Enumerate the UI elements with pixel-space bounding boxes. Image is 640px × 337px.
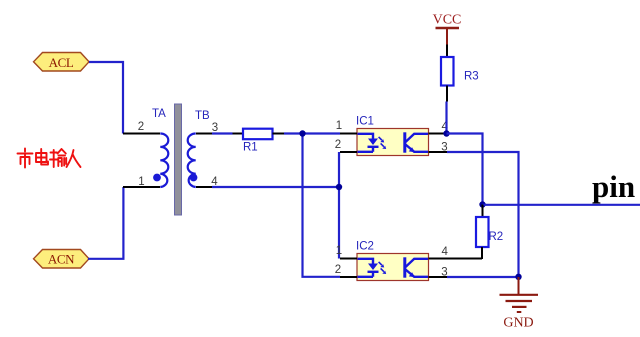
svg-text:IC1: IC1	[356, 116, 374, 128]
IC1 internal phototransistor	[405, 132, 428, 152]
junction node D	[479, 201, 485, 207]
resistor R1	[233, 129, 285, 154]
svg-text:IC2: IC2	[356, 241, 374, 253]
transformer winding TA	[123, 108, 168, 188]
svg-text:VCC: VCC	[433, 13, 462, 28]
svg-text:3: 3	[441, 267, 447, 279]
wire IC1 pin3 to node E	[447, 152, 519, 277]
IC2 internal LED	[358, 259, 379, 277]
wire IC2 pin3 to node E	[447, 276, 519, 278]
junction node C	[443, 130, 449, 136]
transformer T core	[175, 104, 182, 215]
transformer winding TB	[188, 110, 219, 188]
ground GND	[500, 277, 539, 331]
svg-text:3: 3	[441, 142, 447, 154]
IC1 internal LED	[358, 134, 379, 152]
wire TB pin3 to R1	[212, 132, 233, 134]
resistor R3	[441, 57, 479, 102]
IC1 pin 2	[335, 139, 357, 152]
opto-coupler IC1	[335, 116, 449, 156]
IC2 pin 4	[429, 246, 449, 259]
wire node B to IC1 pin2 and IC2 pin1	[338, 152, 340, 259]
resistor R2	[476, 205, 503, 260]
svg-text:ACL: ACL	[49, 55, 74, 70]
text 市电输入 (mains input)	[18, 149, 81, 168]
svg-text:TA: TA	[152, 108, 166, 120]
junction node B	[336, 184, 342, 190]
svg-text:ACN: ACN	[48, 252, 75, 267]
wire ACN to TA pin1	[88, 187, 123, 259]
svg-text:4: 4	[441, 246, 448, 258]
svg-text:R2: R2	[489, 231, 504, 243]
wire R1 to IC1 pin1	[284, 132, 340, 134]
IC2 LED light arrows	[379, 262, 387, 274]
svg-text:R1: R1	[243, 142, 258, 154]
label pin	[592, 169, 635, 204]
junction node A	[299, 130, 305, 136]
svg-text:2: 2	[335, 264, 341, 276]
opto-coupler IC2	[335, 241, 449, 281]
wire R2 to IC2 pin4	[429, 258, 483, 260]
IC1 LED light arrows	[379, 137, 387, 149]
IC1 pin 1	[336, 120, 357, 134]
wire node A down to IC2 pin2	[303, 134, 341, 277]
IC2 pin 3	[429, 267, 448, 279]
IC1 pin 4	[429, 121, 449, 134]
svg-text:TB: TB	[195, 110, 210, 122]
wire ACL to TA pin2	[89, 62, 123, 134]
wire node C to node D	[447, 134, 483, 205]
wire node D to pin output	[483, 204, 640, 206]
power port ACL	[34, 53, 90, 72]
IC1 pin 3	[429, 142, 448, 154]
svg-text:R3: R3	[464, 71, 479, 83]
svg-text:1: 1	[336, 120, 342, 132]
svg-text:pin: pin	[592, 169, 635, 204]
svg-text:3: 3	[212, 122, 218, 134]
wire R3 to node C	[445, 102, 447, 134]
IC2 pin 1	[336, 245, 357, 259]
power port ACN	[34, 250, 90, 269]
power port VCC	[433, 13, 462, 45]
IC2 pin 2	[335, 264, 357, 277]
IC2 internal phototransistor	[405, 257, 428, 277]
svg-text:2: 2	[138, 121, 144, 133]
svg-text:2: 2	[335, 139, 341, 151]
svg-text:GND: GND	[503, 316, 533, 331]
svg-text:1: 1	[336, 245, 342, 257]
svg-text:1: 1	[138, 176, 144, 188]
junction node E	[515, 274, 521, 280]
wire TB pin4 rail to node B	[212, 186, 339, 188]
wire VCC to R3	[446, 45, 448, 58]
